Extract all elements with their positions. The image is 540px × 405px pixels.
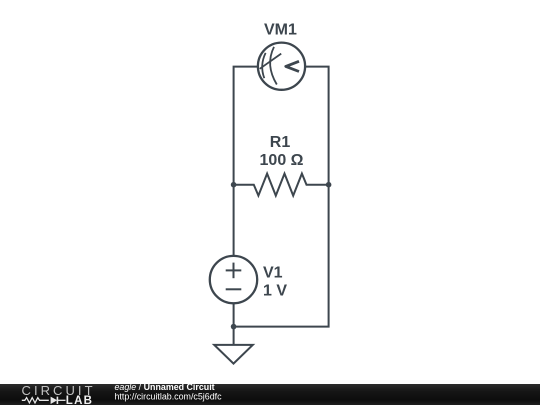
footer title line bbox=[115, 382, 215, 392]
wire V1 bottom to ground bbox=[233, 303, 235, 345]
footer logo diode bbox=[51, 397, 66, 404]
node: bottom junction bbox=[231, 324, 237, 330]
node: resistor right junction bbox=[326, 182, 332, 188]
svg-text:http://circuitlab.com/c5j6dfc: http://circuitlab.com/c5j6dfc bbox=[115, 392, 223, 402]
svg-text:VM1: VM1 bbox=[264, 22, 297, 39]
ground bbox=[214, 345, 253, 364]
svg-text:eagle / Unnamed Circuit: eagle / Unnamed Circuit bbox=[115, 382, 215, 392]
wire right loop: voltmeter right down and across to bottom node bbox=[234, 67, 329, 327]
footer logo CIRCUIT text bbox=[22, 383, 96, 398]
footer logo LAB text bbox=[66, 395, 93, 405]
svg-text:LAB: LAB bbox=[66, 395, 93, 405]
svg-text:1 V: 1 V bbox=[263, 282, 287, 299]
footer logo resistor zigzag bbox=[22, 398, 49, 403]
label V1 bbox=[263, 264, 283, 281]
value 100 Ω bbox=[260, 152, 304, 169]
footer bar bbox=[0, 384, 540, 405]
svg-text:R1: R1 bbox=[270, 134, 291, 151]
resistor R1 bbox=[234, 174, 329, 196]
footer url line bbox=[115, 392, 223, 402]
value 1 V bbox=[263, 282, 287, 299]
wire left loop: voltmeter left to V1 top bbox=[234, 67, 258, 256]
voltage source V1 bbox=[210, 256, 257, 303]
node: resistor left junction bbox=[231, 182, 237, 188]
voltmeter VM1 bbox=[258, 43, 305, 90]
svg-text:100 Ω: 100 Ω bbox=[260, 152, 304, 169]
label VM1 bbox=[264, 22, 297, 39]
svg-text:V1: V1 bbox=[263, 264, 283, 281]
label R1 bbox=[270, 134, 291, 151]
